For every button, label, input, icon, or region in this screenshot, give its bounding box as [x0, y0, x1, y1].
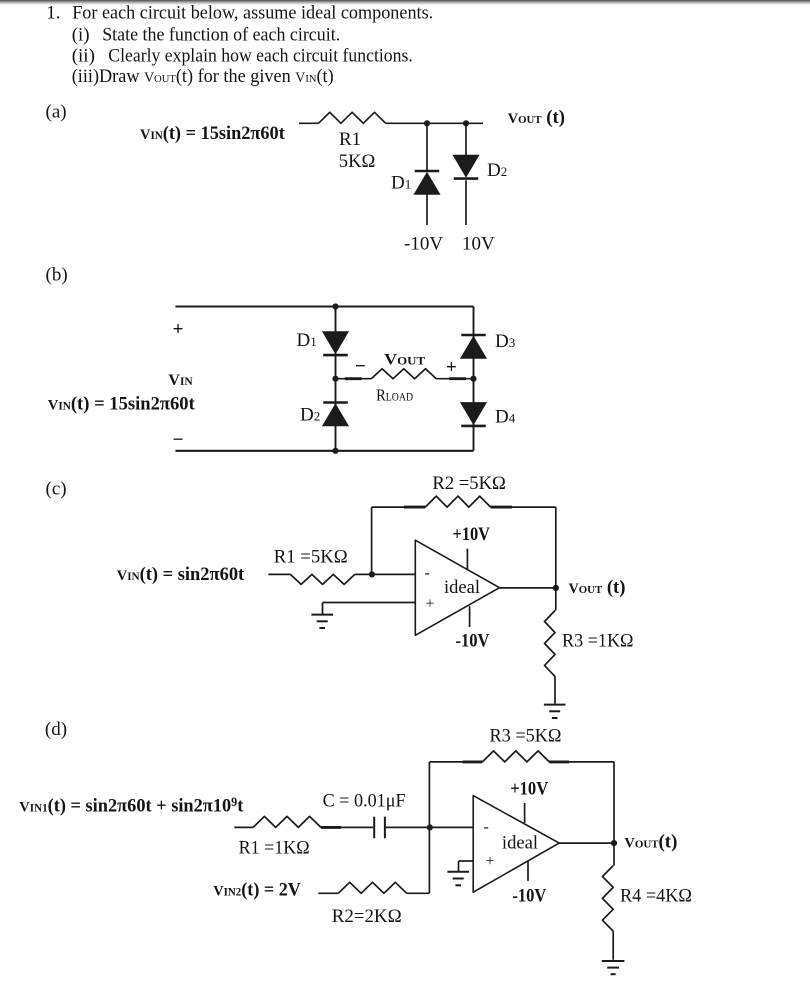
resistor R3	[482, 751, 549, 762]
wire: R4 to ground	[612, 931, 614, 960]
junction dot mid left	[332, 376, 338, 382]
wire: input lead	[299, 122, 319, 124]
svg-text:(iii)Draw VOUT(t) for the give: (iii)Draw VOUT(t) for the given VIN(t)	[72, 66, 334, 87]
wire: D1 to -10V supply	[426, 194, 428, 225]
wire: op-amp output	[500, 587, 556, 589]
svg-text:Clearly explain how each circu: Clearly explain how each circuit functio…	[108, 46, 413, 67]
svg-text:+: +	[426, 595, 435, 612]
wire: ground stub	[458, 861, 460, 872]
resistor lead marks RLOAD	[345, 377, 362, 380]
svg-text:R3 =5KΩ: R3 =5KΩ	[490, 726, 562, 747]
svg-text:(ii): (ii)	[72, 46, 95, 67]
diode D2	[323, 401, 348, 404]
wire: right diode branch	[473, 307, 475, 451]
svg-text:-10V: -10V	[512, 886, 546, 907]
wire: feedback right vertical	[555, 507, 557, 588]
junction dot node D2	[463, 120, 469, 126]
svg-text:D4: D4	[495, 407, 516, 428]
wire: mid-left node to RLOAD	[336, 378, 372, 380]
svg-text:+: +	[486, 853, 495, 870]
svg-text:(b): (b)	[46, 265, 68, 286]
diode D1	[323, 332, 348, 354]
resistor lead mark R1	[321, 826, 341, 829]
diode D1	[415, 170, 440, 173]
op-amp U1 triangle	[415, 540, 499, 635]
svg-text:5KΩ: 5KΩ	[339, 151, 376, 172]
svg-text:R1 =1KΩ: R1 =1KΩ	[239, 838, 310, 859]
svg-text:(a): (a)	[46, 102, 67, 123]
wire: noninverting input	[323, 602, 416, 604]
ground at noninverting input	[311, 614, 333, 616]
svg-text:-10V: -10V	[456, 631, 490, 652]
junction dot inverting node	[369, 571, 375, 577]
svg-text:-: -	[425, 565, 430, 582]
wire: output to R4	[613, 843, 615, 866]
resistor R4	[602, 866, 613, 932]
wire: -10V stub	[527, 862, 529, 881]
wire: feedback top right	[491, 506, 556, 508]
wire: R1 to op-amp	[355, 573, 416, 575]
wire: bottom rail	[175, 450, 473, 452]
wire: R1 to right end	[386, 122, 483, 124]
svg-text:1.: 1.	[46, 2, 60, 23]
wire: node to D1	[426, 123, 428, 171]
resistor R1	[253, 816, 321, 827]
resistor R1	[290, 574, 354, 584]
ground below R3	[544, 704, 566, 706]
svg-text:(d): (d)	[45, 719, 67, 740]
svg-text:D3: D3	[495, 331, 515, 352]
svg-text:R2 =5KΩ: R2 =5KΩ	[432, 473, 506, 494]
wire: top rail	[175, 305, 473, 307]
wire: output to R3	[555, 588, 557, 611]
resistor lead marks R2	[404, 506, 425, 509]
wire: feedback right vertical	[613, 762, 615, 843]
svg-text:R1: R1	[339, 129, 361, 150]
wire: R1 to capacitor	[321, 826, 373, 828]
capacitor C plates	[373, 817, 375, 839]
resistor R2	[338, 882, 406, 893]
wire: R2 to feedback vertical	[407, 892, 430, 894]
svg-text:+: +	[446, 357, 457, 378]
svg-text:R4 =4KΩ: R4 =4KΩ	[620, 886, 692, 907]
resistor R1	[319, 112, 386, 123]
svg-text:−: −	[355, 356, 366, 377]
svg-text:VIN1(t) = sin2π60t + sin2π109t: VIN1(t) = sin2π60t + sin2π109t	[19, 795, 244, 817]
svg-text:+10V: +10V	[453, 524, 491, 545]
svg-text:For each circuit below, assume: For each circuit below, assume ideal com…	[72, 2, 433, 23]
junction dot output node	[611, 840, 617, 846]
ground at noninverting input	[447, 871, 469, 873]
svg-text:(i): (i)	[72, 25, 90, 46]
ground below R4	[602, 960, 625, 962]
svg-text:VIN(t) = 15sin2π60t: VIN(t) = 15sin2π60t	[48, 394, 196, 415]
diode D3	[461, 334, 486, 337]
svg-text:-10V: -10V	[404, 233, 443, 254]
junction dot summing node	[427, 824, 433, 830]
wire: ground stub	[322, 603, 324, 615]
wire: feedback left vertical	[371, 507, 373, 574]
svg-text:+: +	[173, 319, 184, 340]
junction dot bottom left	[332, 448, 338, 454]
wire: feedback left vertical	[428, 762, 430, 893]
svg-text:R2=2KΩ: R2=2KΩ	[332, 906, 402, 927]
resistor RLOAD	[371, 369, 436, 379]
junction dot output node	[553, 585, 559, 591]
svg-text:−: −	[173, 430, 184, 451]
wire: left diode branch	[335, 307, 337, 451]
wire: feedback top right	[549, 761, 614, 763]
svg-text:R3 =1KΩ: R3 =1KΩ	[562, 631, 634, 652]
svg-text:ideal: ideal	[444, 577, 480, 598]
wire: RLOAD to mid-right node	[436, 378, 473, 380]
wire: node to D2	[465, 123, 467, 155]
wire: R3 to ground	[554, 676, 556, 703]
wire: input1 lead	[234, 826, 253, 828]
svg-text:-: -	[484, 819, 489, 836]
svg-text:(c): (c)	[46, 479, 67, 500]
junction dot node D1	[424, 120, 430, 126]
svg-text:+10V: +10V	[510, 779, 548, 800]
svg-text:D1: D1	[391, 173, 411, 194]
svg-text:D1: D1	[297, 330, 317, 351]
wire: capacitor to op-amp	[386, 826, 473, 828]
svg-text:D2: D2	[300, 405, 320, 426]
op-amp U2 triangle	[473, 796, 559, 893]
diode D4	[461, 403, 486, 425]
svg-text:C = 0.01μF: C = 0.01μF	[323, 791, 406, 812]
wire: D2 to 10V supply	[465, 180, 467, 225]
resistor R3	[545, 611, 556, 677]
wire: feedback top left	[372, 506, 426, 508]
svg-text:ideal: ideal	[502, 833, 538, 854]
wire: input lead	[268, 573, 290, 575]
wire: noninverting input	[459, 860, 474, 862]
svg-text:D2: D2	[487, 160, 507, 181]
svg-text:R1 =5KΩ: R1 =5KΩ	[274, 547, 348, 568]
junction dot mid right	[470, 376, 476, 382]
diode D2	[453, 155, 478, 177]
resistor lead marks R3	[463, 760, 483, 763]
wire: -10V stub	[469, 606, 471, 627]
svg-text:VIN(t) = 15sin2π60t: VIN(t) = 15sin2π60t	[140, 123, 285, 144]
resistor R2	[425, 496, 490, 507]
junction dot top left	[332, 303, 338, 309]
wire: feedback top left	[429, 761, 482, 763]
wire: op-amp output	[559, 842, 614, 844]
svg-text:10V: 10V	[462, 233, 495, 254]
svg-text:State the function of each cir: State the function of each circuit.	[102, 25, 340, 46]
wire: +10V stub	[466, 549, 468, 570]
wire: +10V stub	[524, 803, 526, 823]
wire: input2 lead	[318, 892, 338, 894]
